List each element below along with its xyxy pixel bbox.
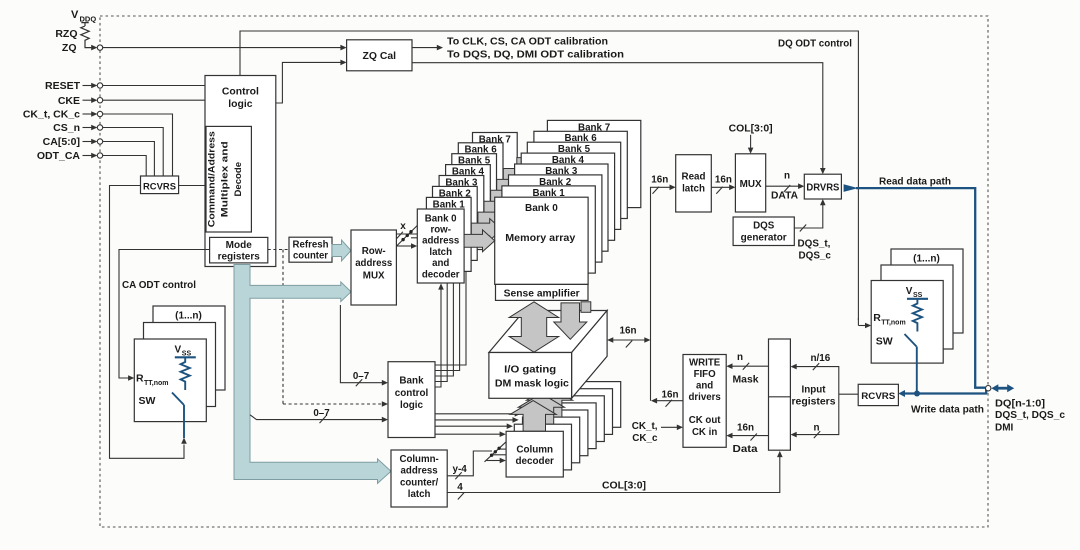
svg-text:ZQ: ZQ (62, 42, 77, 54)
svg-text:RZQ: RZQ (55, 28, 77, 40)
svg-text:To DQS, DQ, DMI ODT calibratio: To DQS, DQ, DMI ODT calibration (447, 50, 624, 61)
svg-text:CK in: CK in (692, 427, 717, 438)
block DQ termination stack (1...n) (891, 249, 963, 333)
bus repeat diagonal (column address per bank) (485, 442, 507, 462)
bus arrow latch to memory Bank 2 (478, 208, 509, 230)
svg-text:16n: 16n (715, 175, 732, 186)
block Read latch (676, 155, 712, 212)
wire 16n Read latch to MUX (711, 186, 730, 188)
block Column-address counter/latch (391, 450, 447, 507)
block Sense amplifier (496, 284, 589, 300)
svg-text:Multiplex and: Multiplex and (220, 141, 231, 217)
svg-text:n: n (813, 423, 819, 434)
wire switch SW to ODT control arrow (183, 405, 185, 438)
svg-text:0–7: 0–7 (313, 408, 330, 419)
svg-text:16n: 16n (651, 175, 668, 186)
svg-text:row-: row- (430, 225, 450, 236)
block U1 Control logic (205, 76, 276, 267)
wire switch SW to write data path node (916, 347, 918, 394)
block row-address latch Bank 5 (452, 154, 497, 228)
wire y-4 column address to column decoders (447, 451, 492, 476)
wire Mode registers to RTT CA block (119, 250, 210, 379)
bus arrow latch to memory Bank 0 (464, 230, 495, 252)
svg-text:4: 4 (457, 482, 463, 493)
svg-text:0–7: 0–7 (353, 371, 370, 382)
block input latch (mask/data staging) (769, 339, 791, 450)
svg-text:RCVRS: RCVRS (861, 391, 896, 402)
dashed wire Mode registers to Bank control logic (283, 250, 383, 405)
svg-text:decoder: decoder (515, 456, 554, 467)
svg-text:Row-: Row- (362, 246, 386, 257)
chip boundary (dashed outline) (100, 16, 988, 527)
resistor RTT,nom (CA) (181, 357, 190, 390)
svg-text:counter: counter (293, 251, 328, 262)
svg-text:(1...n): (1...n) (913, 254, 940, 265)
block row-address latch Bank 4 (446, 165, 491, 239)
svg-text:DQ ODT control: DQ ODT control (778, 39, 852, 50)
wire row-address arrow into Bank 0 latch (397, 245, 412, 247)
wire Control logic to ZQ Cal (upper input via top) (240, 31, 858, 320)
wire CK_t/CK_c to RCVRS (103, 114, 173, 176)
wire DQ ODT control vertical arrow into RTT block (857, 318, 859, 326)
block Command/Address Multiplex and Decode (206, 126, 251, 232)
svg-text:registers: registers (218, 252, 261, 263)
block column decoder Bank 1 (514, 424, 571, 470)
svg-text:y-4: y-4 (453, 464, 468, 475)
svg-text:CK out: CK out (689, 415, 722, 426)
block Refresh counter (289, 237, 332, 262)
svg-text:n: n (784, 171, 790, 182)
bus arrow column decoder Bank 2 to I/O gating (527, 386, 573, 417)
bus 16n vertical data bus (651, 187, 671, 400)
bus arrow sense amp to I/O gating (bidirectional, bank 0) (509, 302, 559, 352)
svg-text:Read data path: Read data path (879, 176, 951, 187)
svg-text:RCVRS: RCVRS (143, 181, 177, 192)
block ZQ Cal (347, 40, 412, 71)
net read data path (blue) (844, 184, 858, 192)
block memory array Bank 4 (521, 153, 614, 240)
svg-text:V: V (175, 344, 182, 355)
svg-text:address: address (355, 258, 393, 269)
wire ZQ Cal output to CLK/CS/CA ODT calibration (412, 47, 438, 49)
svg-text:SW: SW (876, 336, 893, 348)
svg-text:CK_t,: CK_t, (632, 421, 658, 432)
wire column-address arrow into Column decoder (487, 460, 501, 462)
resistor RZQ (81, 23, 92, 48)
block row-address latch Bank 2 (433, 186, 478, 260)
svg-text:ODT_CA: ODT_CA (37, 150, 81, 162)
bus arrow latch to memory Bank 3 (484, 197, 515, 219)
bus repeat diagonal (row address per bank) (397, 225, 418, 246)
svg-text:generator: generator (741, 233, 787, 244)
junction node write path / termination (914, 391, 920, 397)
svg-text:decoder: decoder (422, 269, 460, 280)
svg-text:Read: Read (682, 172, 706, 183)
wire n DATA MUX to DRVRS (766, 185, 800, 187)
svg-text:R: R (136, 373, 144, 385)
svg-text:16n: 16n (662, 389, 679, 400)
wire Input registers to RCVRS (DQ) (839, 393, 858, 395)
block DRVRS (output drivers) (804, 174, 841, 199)
pad DQ (bidirectional) (986, 386, 991, 391)
svg-text:Memory array: Memory array (505, 233, 575, 244)
svg-text:ZQ Cal: ZQ Cal (363, 51, 397, 62)
svg-text:registers: registers (792, 396, 837, 407)
block column decoder Bank 3 (531, 410, 588, 456)
block row-address latch Bank 0 (417, 209, 464, 283)
svg-text:CK_t, CK_c: CK_t, CK_c (23, 109, 80, 121)
svg-text:Data: Data (733, 444, 759, 455)
wire WRITE FIFO to data bus (656, 400, 683, 402)
wire CA[5:0] to RCVRS (103, 142, 155, 177)
svg-text:DQS: DQS (753, 221, 775, 232)
svg-text:and: and (432, 258, 449, 269)
block CA termination stack (1...n) (153, 306, 225, 390)
wire RESET to Control logic (103, 85, 205, 87)
svg-text:Mask: Mask (733, 375, 760, 386)
svg-text:latch: latch (429, 247, 452, 258)
bus 16n I/O gating to read/write bus (bidirectional) (612, 339, 646, 341)
block memory array Bank 6 (534, 131, 627, 218)
wire CKE to Control logic (103, 99, 205, 101)
block DQ termination RTT,nom with switch SW (871, 281, 943, 364)
svg-text:SW: SW (139, 395, 156, 407)
svg-text:MUX: MUX (363, 271, 385, 282)
svg-text:n: n (737, 352, 743, 363)
bus arrow fragment (bank 2) sense amp to I/O gating (581, 302, 591, 313)
svg-text:COL[3:0]: COL[3:0] (602, 480, 646, 491)
dashed wire Mode registers to Refresh counter (268, 249, 289, 251)
bus arrow latch to memory Bank 5 (497, 175, 528, 197)
svg-text:Mode: Mode (226, 240, 253, 251)
svg-text:Command/Address: Command/Address (207, 131, 218, 227)
block column decoder Bank 5 (547, 396, 604, 442)
wires Bank control logic to column decoders (435, 433, 501, 435)
block CA termination middle (144, 323, 216, 407)
block Column decoder (Bank 0) (506, 431, 563, 477)
svg-text:CKE: CKE (58, 95, 80, 107)
block CA termination RTT,nom with switch SW (134, 339, 206, 422)
receiver block RCVRS (CA) (141, 176, 179, 194)
wire n Mask latch to WRITE FIFO (731, 365, 768, 367)
bus arrow sense amp to I/O gating (bank 1) (554, 303, 587, 339)
svg-text:DQS_t,: DQS_t, (798, 239, 831, 250)
block column decoder Bank 6 (555, 389, 612, 435)
receiver block RCVRS (DQ) (858, 384, 898, 405)
block row-address latch Bank 7 (473, 133, 518, 207)
svg-text:CA[5:0]: CA[5:0] (43, 136, 80, 148)
bus address (from Mode registers to Row-address MUX and Column-address counter) (234, 265, 391, 484)
net write data path (blue) (905, 389, 988, 394)
block column decoder Bank 4 (539, 403, 596, 449)
block Mode registers (210, 237, 268, 263)
svg-text:R: R (873, 312, 881, 324)
wire ODT_CA to RCVRS (103, 156, 147, 177)
svg-text:COL[3:0]: COL[3:0] (729, 124, 773, 135)
wire x row address MUX to bank latches (396, 233, 417, 235)
svg-text:logic: logic (400, 400, 424, 411)
svg-text:DMI: DMI (995, 422, 1014, 433)
svg-text:DRVRS: DRVRS (806, 182, 840, 193)
wire 0-7 address bus to Bank control logic (250, 415, 383, 420)
svg-text:To CLK, CS, CA ODT calibration: To CLK, CS, CA ODT calibration (447, 36, 608, 47)
bus arrow latch to memory Bank 4 (491, 186, 522, 208)
block row-address latch Bank 6 (458, 143, 503, 217)
svg-text:Refresh: Refresh (293, 239, 329, 250)
block Bank control logic (388, 362, 435, 438)
svg-text:control: control (395, 388, 429, 399)
block memory array Bank 1 (502, 186, 595, 273)
svg-text:CK_c: CK_c (632, 433, 658, 444)
svg-text:(1...n): (1...n) (175, 311, 202, 322)
svg-text:Bank 0: Bank 0 (425, 213, 457, 224)
svg-text:Sense amplifier: Sense amplifier (504, 289, 580, 300)
wire CS_n to RCVRS (103, 128, 164, 177)
svg-text:DQS_c: DQS_c (799, 250, 832, 261)
block memory array Bank 2 (509, 175, 602, 262)
svg-text:TT,nom: TT,nom (881, 320, 906, 327)
svg-text:V: V (906, 286, 913, 297)
bus arrow latch to memory Bank 7 (517, 153, 548, 175)
svg-text:x: x (400, 221, 406, 232)
resistor RTT,nom (DQ) (913, 299, 922, 332)
wire 0-7 Row-address MUX to Bank control logic (340, 305, 383, 383)
svg-text:latch: latch (682, 184, 705, 195)
svg-text:16n: 16n (737, 423, 754, 434)
bus arrow Column decoder to I/O gating (Bank 0) (510, 401, 556, 432)
svg-text:16n: 16n (619, 326, 636, 337)
svg-text:logic: logic (228, 99, 252, 110)
block MUX (read data mux) (735, 154, 765, 212)
block row-address latch Bank 1 (426, 197, 471, 271)
block column decoder Bank 2 (523, 417, 580, 463)
svg-text:CS_n: CS_n (53, 122, 80, 134)
svg-text:DQ[n-1:0]: DQ[n-1:0] (995, 398, 1045, 409)
block row-address latch Bank 3 (439, 176, 484, 250)
wire CA ODT control from RCVRS down to switch SW (110, 186, 185, 459)
svg-text:WRITE: WRITE (689, 358, 721, 369)
svg-text:Bank: Bank (399, 376, 424, 387)
block memory array Bank 5 (527, 142, 620, 229)
svg-text:Input: Input (802, 385, 827, 396)
block DQS generator (733, 217, 794, 246)
wire DQS_t DQS_c DQS generator to DRVRS (794, 205, 823, 229)
svg-text:V: V (71, 9, 79, 21)
bus arrow Refresh counter to Row-address MUX (332, 240, 351, 261)
block I/O gating DM mask logic (3D) (489, 311, 607, 353)
svg-text:FIFO: FIFO (694, 369, 717, 380)
wire 4 COL[3:0] to input latch (447, 456, 780, 492)
svg-text:Bank 0: Bank 0 (525, 203, 558, 214)
svg-text:counter/: counter/ (400, 477, 439, 488)
svg-text:address: address (401, 466, 438, 477)
block memory array Bank 0 (495, 197, 588, 284)
block memory array Bank 7 (547, 120, 640, 207)
bus arrow latch to memory Bank 6 (503, 164, 534, 186)
wire RCVRS to Command/Address block (179, 185, 206, 187)
svg-text:DATA: DATA (771, 191, 798, 202)
svg-text:address: address (422, 236, 459, 247)
svg-text:latch: latch (408, 489, 431, 500)
wire 16n Data latch to WRITE FIFO (731, 435, 768, 437)
bus arrow latch to memory Bank 1 (471, 219, 502, 241)
svg-text:Write data path: Write data path (911, 405, 984, 416)
svg-text:and: and (696, 381, 713, 392)
wires Bank control logic to row-address latches (435, 289, 441, 387)
block memory array Bank 3 (515, 164, 608, 251)
svg-text:I/O gating: I/O gating (504, 364, 556, 375)
svg-text:DQS_t, DQS_c: DQS_t, DQS_c (995, 410, 1065, 421)
svg-text:Control: Control (222, 86, 259, 97)
block WRITE FIFO and drivers (683, 355, 726, 448)
block DQ termination middle (881, 265, 953, 349)
bus arrow column decoder Bank 1 to I/O gating (518, 394, 564, 425)
block Row-address MUX (351, 230, 396, 305)
svg-text:CA ODT control: CA ODT control (122, 280, 196, 291)
wire Control logic right edge to ZQ Cal lower input (276, 62, 341, 103)
svg-text:DM mask logic: DM mask logic (495, 378, 570, 389)
wire ZQ pad to ZQ Cal (103, 47, 342, 49)
svg-text:Column-: Column- (399, 454, 438, 465)
svg-text:n/16: n/16 (811, 353, 831, 364)
svg-text:TT,nom: TT,nom (144, 380, 169, 387)
svg-text:MUX: MUX (740, 179, 762, 190)
block Input registers (796, 367, 839, 435)
svg-text:Decode: Decode (233, 162, 244, 197)
block column decoder Bank 7 (564, 382, 621, 428)
svg-text:RESET: RESET (45, 80, 81, 92)
svg-text:drivers: drivers (688, 392, 720, 403)
svg-text:Column: Column (516, 444, 553, 455)
